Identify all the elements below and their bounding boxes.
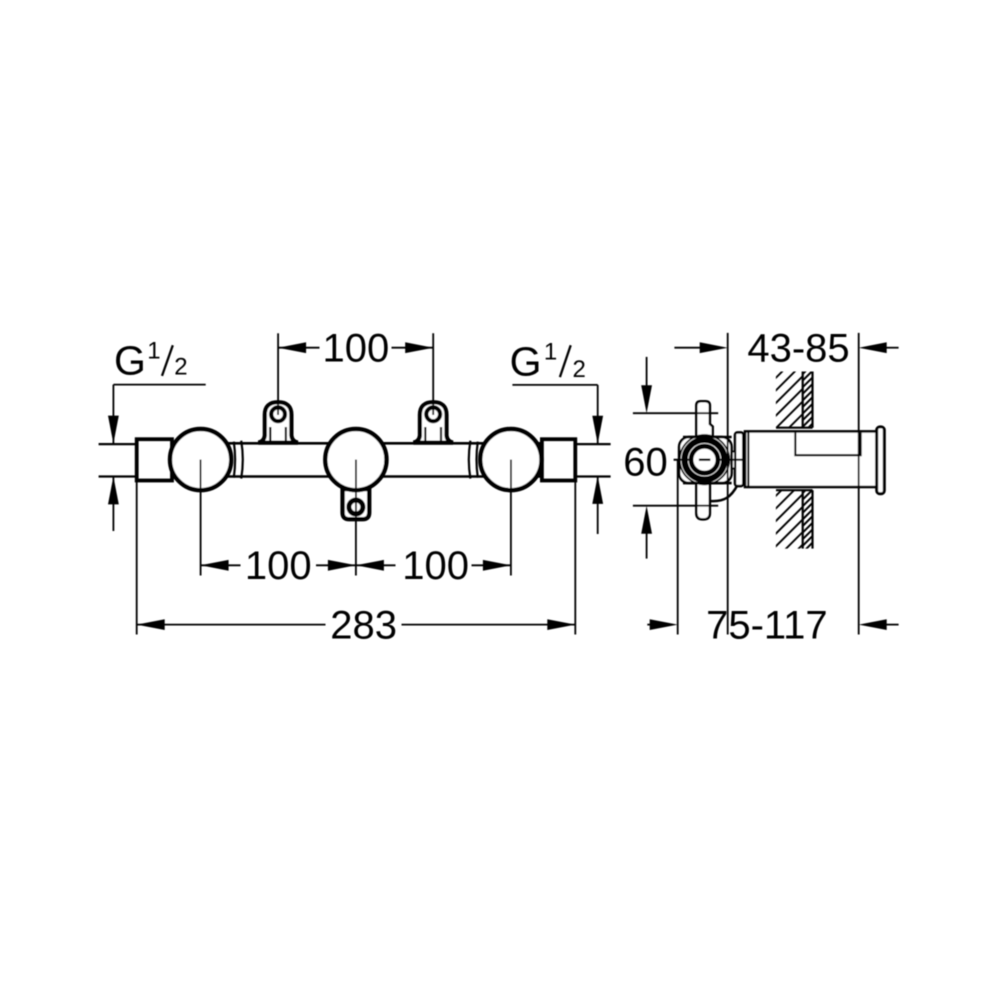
svg-text:1: 1 [147, 338, 160, 365]
svg-text:60: 60 [623, 440, 668, 484]
svg-text:100: 100 [245, 544, 312, 588]
svg-text:100: 100 [402, 544, 469, 588]
svg-text:2: 2 [573, 356, 586, 383]
svg-text:75-117: 75-117 [706, 604, 828, 648]
svg-text:100: 100 [323, 327, 390, 371]
svg-text:G: G [114, 338, 146, 384]
svg-text:43-85: 43-85 [747, 327, 849, 371]
svg-text:1: 1 [544, 339, 557, 366]
svg-text:2: 2 [174, 354, 187, 381]
svg-text:G: G [510, 338, 542, 384]
svg-text:283: 283 [330, 604, 397, 648]
